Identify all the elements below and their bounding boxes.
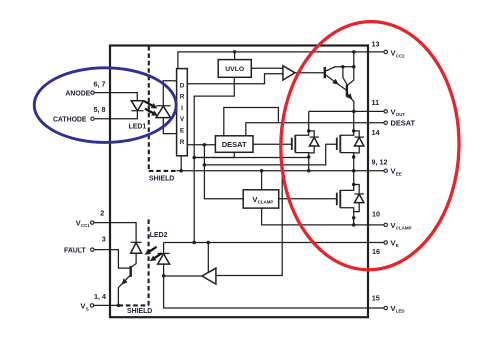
shield 1 dashed isolation barrier (149, 46, 177, 183)
junction dot VS shield (117, 304, 121, 308)
wire VCLAMP block bottom to pin 10 (262, 208, 384, 225)
pin 16 VE (372, 239, 399, 257)
svg-text:DESAT: DESAT (222, 140, 247, 149)
svg-text:5, 8: 5, 8 (94, 105, 106, 114)
wire VCC1 to detector diode (94, 223, 136, 243)
svg-text:15: 15 (372, 294, 380, 303)
pin VS terminal circle (90, 304, 93, 307)
wire VEE rail to pins 9,12 (177, 170, 385, 172)
svg-text:CC1: CC1 (81, 223, 90, 228)
wire Q4 source to VEE rail (308, 157, 310, 171)
wire DRIVER output to buffer (187, 74, 283, 84)
blue highlight ellipse input LED (34, 68, 176, 143)
junction dot VCC2 vertical (352, 65, 356, 69)
photodiode D2 fault detector (131, 242, 142, 253)
junction dot clamp source on pin10 wire (352, 223, 356, 227)
wire VE rail to pin 16 (164, 242, 384, 244)
block DESAT (215, 136, 253, 153)
svg-text:CLAMP: CLAMP (396, 226, 412, 231)
svg-text:LED2: LED2 (150, 232, 168, 239)
junction dot pin13 rail (352, 50, 356, 54)
transistor Q2 darlington lower (346, 80, 354, 111)
wire VS pin (93, 304, 118, 306)
block UVLO (218, 60, 251, 78)
body diode D4 (309, 131, 319, 153)
svg-text:LED1: LED1 (129, 123, 147, 130)
wire VE branch to inverter (207, 243, 209, 273)
body diode D6 (354, 185, 364, 212)
wire D1 cathode to driver (163, 81, 176, 106)
MOSFET Q6 clamp (337, 183, 356, 225)
svg-text:I: I (181, 105, 183, 112)
svg-text:SHIELD: SHIELD (127, 308, 152, 315)
svg-text:DESAT: DESAT (391, 119, 416, 128)
wire UVLO top supply (234, 52, 236, 60)
body diode D5 (354, 131, 364, 153)
transistor Q3 fault output (118, 264, 136, 306)
wire DRIVER to DESAT (187, 144, 215, 146)
junction dot VCLAMP top (260, 169, 264, 173)
pin 15 VLED (372, 294, 405, 314)
MOSFET Q4 blanking pulldown left (292, 111, 311, 158)
wire buffer to Q1 base (295, 72, 325, 74)
pin 10 VCLAMP (372, 210, 411, 231)
wire LED2 cathode to pin 15 (164, 276, 384, 308)
svg-text:OUT: OUT (396, 112, 406, 117)
shield 2 dashed isolation barrier (118, 217, 152, 315)
wire DRIVER bottom to VEE rail (180, 156, 182, 171)
svg-text:1, 4: 1, 4 (94, 292, 106, 301)
svg-text:10: 10 (372, 210, 380, 219)
svg-text:3: 3 (102, 234, 106, 243)
LED1 input emitter diode (131, 101, 143, 111)
wire D1 anode to driver (163, 118, 176, 134)
junction dot VE rail right (207, 241, 211, 245)
svg-text:11: 11 (372, 98, 380, 107)
wire UVLO output to buffer (251, 67, 283, 69)
svg-text:SHIELD: SHIELD (149, 176, 174, 183)
svg-text:EE: EE (396, 171, 402, 176)
svg-text:UVLO: UVLO (225, 66, 244, 73)
wire VOUT net to pin 11 (309, 110, 384, 112)
wire Q1 collector to VCC2 (334, 66, 354, 68)
pin CATHODE terminal circle (91, 117, 94, 120)
wire UVLO bottom reference (long vertical) (194, 77, 234, 242)
LED1 light arrows (144, 101, 158, 116)
pin 13 VCC2 (372, 39, 406, 58)
svg-text:D: D (180, 82, 185, 89)
svg-text:2: 2 (100, 209, 104, 218)
wire reference rail to MOSFET source (194, 157, 309, 159)
inverter U3 (fault feedback) (202, 268, 216, 284)
svg-text:6, 7: 6, 7 (94, 79, 106, 88)
junction dot VOUT node (352, 110, 356, 114)
junction dot VE rail left (192, 241, 196, 245)
svg-text:R: R (180, 139, 185, 146)
wire DESAT output to blanking gate (253, 143, 292, 145)
svg-text:13: 13 (372, 39, 380, 48)
wire FAULT to Q3 base (94, 250, 131, 269)
photodiode D1 detector (156, 106, 170, 118)
pin 11 VOUT (372, 98, 406, 117)
svg-text:CATHODE: CATHODE (53, 116, 87, 123)
wire DESAT bottom reference (194, 152, 234, 157)
wire bias branch to Q2 base (343, 67, 347, 85)
wire Q5 source to VEE and clamp drain (353, 157, 355, 185)
junction dot gate branch top (203, 143, 207, 147)
svg-text:ANODE: ANODE (65, 91, 90, 98)
wire anode lead (94, 93, 137, 101)
svg-text:E: E (396, 243, 399, 248)
IC package boundary (110, 46, 368, 318)
pin ANODE terminal circle (91, 91, 94, 94)
junction dot LED2 cathode (162, 274, 166, 278)
wire inverter input from VEE rail (216, 171, 282, 276)
junction dot DESAT bottom (192, 156, 196, 160)
svg-text:9, 12: 9, 12 (372, 157, 388, 166)
wire to pulldown gate (204, 144, 336, 165)
svg-text:14: 14 (372, 128, 380, 137)
svg-text:R: R (180, 94, 185, 101)
svg-text:CLAMP: CLAMP (258, 200, 274, 205)
transistor Q1 darlington upper (325, 67, 347, 91)
buffer amplifier U2 (283, 66, 295, 80)
svg-text:FAULT: FAULT (64, 248, 86, 255)
svg-text:LED: LED (396, 309, 405, 314)
MOSFET Q5 pulldown right (337, 111, 356, 158)
junction dot Q5 source on VEE (352, 169, 356, 173)
wire VCC2 rail to pin 13 (178, 52, 384, 69)
junction dot DRIVER bottom (179, 169, 183, 173)
junction dot UVLO supply (233, 50, 237, 54)
LED2 light arrows (145, 247, 162, 261)
wire DESAT pin 14 net (246, 123, 384, 136)
svg-text:E: E (180, 128, 185, 135)
wire VCLAMP block to clamp gate (279, 198, 337, 200)
wire VCC2 vertical to output stage (353, 52, 355, 80)
wire D2 anode to Q3 collector (135, 253, 137, 264)
junction dot gate branch (203, 163, 207, 167)
wire inverter output to LED2 (164, 275, 202, 277)
red highlight ellipse output stage (278, 20, 461, 272)
pin 9,12 VEE (372, 157, 402, 176)
label VCC1 (76, 218, 91, 228)
svg-text:S: S (86, 306, 89, 311)
wire VCLAMP block top to VEE rail (261, 171, 263, 190)
LED2 feedback emitter diode (158, 243, 170, 276)
svg-text:16: 16 (372, 247, 380, 256)
pin 14 DESAT (372, 119, 416, 137)
svg-text:CC2: CC2 (396, 53, 405, 58)
block DRIVER (177, 69, 188, 156)
junction dot collector wire (341, 65, 345, 69)
pin FAULT terminal circle (91, 248, 94, 251)
svg-text:V: V (180, 116, 185, 123)
junction dot Q4 source on VEE (307, 169, 311, 173)
label VS (80, 302, 88, 312)
wire cathode lead (94, 111, 137, 119)
pin VCC1 terminal circle (91, 221, 94, 224)
block VCLAMP (243, 190, 279, 208)
wire driver gate branch vertical (204, 145, 243, 199)
wire DESAT top to DESAT pin net (224, 108, 279, 136)
